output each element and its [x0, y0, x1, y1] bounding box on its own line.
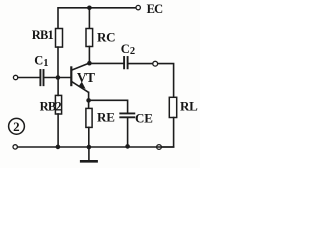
wire: input terminal to C1 — [18, 77, 39, 79]
capacitor CE — [120, 113, 134, 117]
node: base / RB1 / RB2 junction dot — [56, 75, 61, 80]
terminal: EC supply open circle — [136, 5, 140, 9]
wire: CE bottom lead to bottom rail — [127, 118, 129, 146]
svg-text:C1: C1 — [34, 54, 48, 70]
resistor RL — [169, 97, 176, 117]
node: RB2 bottom junction dot — [56, 145, 61, 150]
wire: RB2 bottom lead to bottom rail — [57, 114, 59, 147]
capacitor C2 — [124, 57, 128, 68]
svg-text:EC: EC — [147, 2, 164, 16]
wire: emitter node down to RE — [88, 100, 90, 108]
svg-text:C2: C2 — [121, 42, 135, 57]
svg-text:VT: VT — [77, 70, 95, 85]
terminal: output open circle (bottom) — [157, 145, 162, 150]
wire: C2 to output corner and down right column — [129, 64, 174, 98]
svg-text:2: 2 — [13, 119, 20, 134]
wire: RL bottom lead down to bottom rail corner — [161, 118, 173, 148]
resistor RE — [86, 108, 92, 127]
wire: collector node to C2 — [89, 62, 123, 64]
terminal: bottom-left open circle — [13, 145, 17, 149]
wire: RC bottom lead to collector node — [88, 47, 90, 64]
svg-text:CE: CE — [135, 111, 153, 126]
svg-text:RL: RL — [180, 99, 198, 114]
node: top rail / RC junction dot — [87, 6, 92, 11]
capacitor C1 — [40, 70, 43, 85]
svg-text:RB2: RB2 — [40, 100, 62, 114]
resistor RB1 — [56, 29, 63, 48]
wire: bottom ground rail — [18, 146, 174, 148]
wire: C1 to transistor base — [45, 77, 71, 79]
node: ground junction dot — [87, 145, 92, 150]
wire: RB1 bottom lead to base node — [57, 47, 59, 77]
node: collector junction dot — [87, 61, 92, 66]
transistor VT collector stroke — [72, 63, 89, 70]
svg-text:RC: RC — [97, 29, 115, 44]
resistor RB2 — [55, 95, 61, 114]
node: CE bottom junction dot — [125, 144, 130, 149]
wire: top supply rail from RB1 corner to EC terminal — [58, 8, 136, 29]
svg-text:RE: RE — [97, 109, 115, 124]
transistor VT emitter stroke with arrow — [72, 82, 88, 93]
ground symbol — [81, 147, 96, 161]
wire: RC top lead from supply rail — [88, 8, 90, 29]
transistor VT base bar — [70, 67, 72, 85]
resistor RC — [86, 29, 93, 47]
wire: emitter column down to emitter node — [88, 92, 90, 100]
terminal: input open circle (left) — [13, 75, 17, 79]
wire: RB2 top lead from base node — [57, 78, 59, 96]
svg-text:RB1: RB1 — [32, 28, 54, 42]
figure number circled 2 — [9, 118, 25, 134]
terminal: output open circle (top) — [153, 61, 158, 66]
node: emitter junction dot — [86, 98, 91, 103]
wire: RE bottom lead to bottom rail — [88, 127, 90, 147]
wire: emitter node across to CE column — [89, 100, 128, 112]
